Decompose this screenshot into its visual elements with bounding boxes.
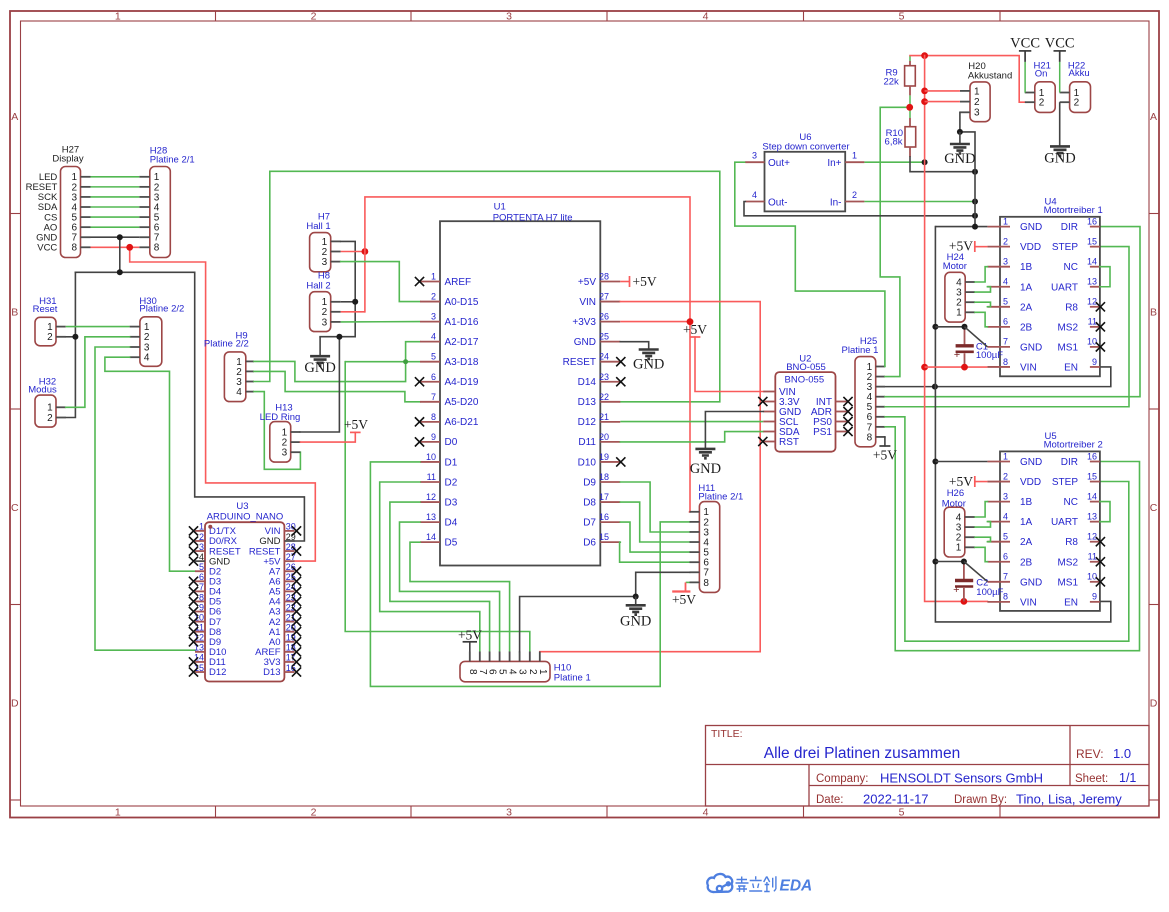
power flag +5V H13: [350, 431, 361, 433]
U3 pin 19 A0: [284, 641, 294, 643]
wire H10.3 to GND junction: [520, 597, 636, 652]
svg-text:12: 12: [426, 492, 436, 502]
U2 pin ADR: [836, 411, 848, 413]
svg-text:5: 5: [431, 352, 436, 362]
svg-text:+5V: +5V: [683, 322, 707, 337]
wire H24.3 to U4.1A: [975, 287, 991, 292]
U4 pin 5 2A: [987, 306, 1010, 308]
svg-text:4: 4: [752, 190, 757, 200]
svg-text:9: 9: [199, 602, 204, 612]
svg-text:Platine 2/1: Platine 2/1: [150, 155, 195, 166]
svg-text:D: D: [1150, 698, 1158, 710]
svg-text:4: 4: [703, 807, 709, 819]
svg-text:100µF: 100µF: [976, 350, 1003, 361]
IC U3 ARDUINO_NANO: [205, 522, 284, 681]
svg-text:1: 1: [431, 272, 436, 282]
wire U4 NC to UART: [1100, 267, 1110, 287]
svg-text:Platine 2/2: Platine 2/2: [204, 339, 249, 350]
wire C2 top junction: [935, 561, 964, 563]
svg-text:Hall 1: Hall 1: [306, 221, 330, 232]
U1 pin 19 D10: [600, 461, 620, 463]
svg-text:3: 3: [752, 151, 757, 161]
svg-text:2: 2: [431, 292, 436, 302]
svg-text:D10: D10: [578, 457, 597, 468]
svg-text:U1: U1: [494, 202, 506, 213]
svg-text:GND: GND: [574, 337, 596, 348]
wire U1.13 D4 to H10.5: [400, 522, 500, 651]
svg-text:2022-11-17: 2022-11-17: [863, 792, 929, 807]
svg-text:7: 7: [477, 669, 488, 675]
junction dot H7.2: [362, 248, 369, 255]
wire U6.In- to GND net: [864, 201, 975, 203]
svg-text:30: 30: [286, 522, 296, 532]
svg-text:+5V: +5V: [578, 277, 596, 288]
svg-text:C: C: [1150, 502, 1158, 514]
U1 pin 26 +3V3: [600, 321, 620, 323]
U2 pin 3.3V: [763, 401, 775, 403]
U3 pin 24 A5: [284, 590, 294, 592]
svg-text:4: 4: [1003, 277, 1008, 287]
U2 pin INT: [836, 401, 848, 403]
svg-text:STEP: STEP: [1052, 242, 1078, 253]
connector H20 Akkustand: [970, 82, 990, 122]
svg-text:ARDUINO_NANO: ARDUINO_NANO: [207, 512, 284, 523]
svg-text:GND: GND: [1020, 457, 1042, 468]
U6 pin 2 In-: [845, 201, 864, 203]
svg-text:3: 3: [322, 317, 328, 328]
wire U1.16 D7 to H11.5: [620, 522, 689, 552]
junction dot +3V3: [687, 318, 694, 325]
connector H10 Platine 1: [460, 661, 550, 681]
U1 pin 22 D13: [600, 401, 620, 403]
svg-text:STEP: STEP: [1052, 477, 1078, 488]
svg-text:19: 19: [599, 452, 609, 462]
svg-text:REV:: REV:: [1076, 747, 1104, 761]
svg-text:R8: R8: [1065, 302, 1078, 313]
U6 pin 4 Out-: [745, 201, 764, 203]
U3 pin 9 D6: [195, 611, 205, 613]
U4 pin 11 MS2: [1090, 326, 1100, 328]
svg-text:GND: GND: [620, 613, 651, 629]
wire VCC top to H21.2: [910, 56, 1025, 103]
svg-text:2B: 2B: [1020, 557, 1033, 568]
svg-text:D13: D13: [578, 397, 597, 408]
EasyEDA logo: [707, 874, 732, 892]
svg-text:B: B: [1150, 307, 1157, 319]
U3 pin 23 A4: [284, 600, 294, 602]
power flag VCC H21: [1019, 50, 1031, 52]
svg-text:1: 1: [115, 11, 121, 23]
svg-text:8: 8: [199, 592, 204, 602]
wire H30.2-H32.1: [66, 337, 130, 408]
connector H28 Platine 2/1: [150, 167, 171, 258]
wire U5 NC to UART: [1100, 502, 1110, 522]
U4 pin 2 VDD: [987, 246, 1010, 248]
svg-text:5: 5: [497, 669, 508, 675]
svg-text:D11: D11: [578, 437, 596, 448]
svg-text:3: 3: [282, 448, 288, 459]
wire U1.11 D2 to H10.7: [380, 482, 480, 652]
svg-text:NC: NC: [1064, 497, 1078, 508]
svg-text:RESET: RESET: [563, 357, 596, 368]
svg-text:GND: GND: [1044, 150, 1075, 166]
wire H30.3-U3.D10: [95, 347, 195, 650]
wire H8.3 to U1.3: [341, 321, 420, 323]
wire GND net to U3.29: [195, 272, 305, 541]
connector H7 Hall 1: [310, 233, 331, 272]
U2 pin VIN: [763, 391, 775, 393]
U1 pin 9 D0: [420, 441, 440, 443]
svg-text:3: 3: [517, 669, 528, 675]
svg-text:Alle drei Platinen zusammen: Alle drei Platinen zusammen: [764, 745, 960, 762]
wire H9.4 to H13.3: [254, 392, 300, 470]
svg-text:9: 9: [1092, 592, 1097, 602]
junction dot VCC H27.8: [126, 244, 133, 251]
svg-text:8: 8: [154, 243, 160, 254]
svg-text:D1: D1: [445, 457, 458, 468]
U4 pin 6 2B: [987, 326, 1010, 328]
svg-text:10: 10: [1087, 337, 1097, 347]
svg-text:A4-D19: A4-D19: [445, 377, 479, 388]
svg-text:Modus: Modus: [28, 385, 57, 396]
wire H31.1-H30.1: [66, 326, 130, 328]
junction dot divider mid: [906, 104, 913, 111]
svg-text:D4: D4: [445, 517, 458, 528]
wire H24.1 to U4.2B: [975, 312, 987, 327]
svg-text:12: 12: [1087, 532, 1097, 542]
U1 pin 8 A6-D21: [420, 421, 440, 423]
U3 pin 2 D0/RX: [195, 540, 205, 542]
U4 pin 8 VIN: [987, 366, 1010, 368]
svg-text:1A: 1A: [1020, 282, 1033, 293]
svg-text:7: 7: [199, 582, 204, 592]
U5 pin 5 2A: [987, 541, 1010, 543]
svg-text:5: 5: [199, 562, 204, 572]
svg-text:8: 8: [703, 578, 709, 589]
svg-text:Platine 1: Platine 1: [554, 673, 591, 684]
wire H26.4 to U5.1B: [975, 502, 987, 517]
power flag VCC H22: [1054, 50, 1066, 52]
wire +5V flag to U2.VIN: [695, 337, 763, 392]
svg-text:8: 8: [867, 432, 873, 443]
U4 pin 10 MS1: [1090, 346, 1100, 348]
svg-text:15: 15: [1087, 471, 1097, 481]
wire H20.1 to VCC: [925, 90, 960, 92]
svg-text:10: 10: [426, 452, 436, 462]
svg-text:28: 28: [286, 542, 296, 552]
svg-text:2B: 2B: [1020, 322, 1033, 333]
wire GND vertical right: [935, 227, 1110, 622]
U3 pin 25 A6: [284, 580, 294, 582]
svg-text:5: 5: [899, 807, 905, 819]
wire U6.In+ to VCC net: [864, 161, 924, 163]
svg-text:GND: GND: [1020, 577, 1042, 588]
svg-text:HENSOLDT Sensors GmbH: HENSOLDT Sensors GmbH: [880, 771, 1043, 786]
svg-text:4: 4: [236, 387, 242, 398]
svg-text:Sheet:: Sheet:: [1075, 773, 1108, 785]
wire H13.2 to +5V flag: [300, 432, 355, 442]
U5 pin 3 1B: [987, 501, 1010, 503]
svg-text:MS1: MS1: [1057, 577, 1078, 588]
svg-text:RST: RST: [779, 437, 799, 448]
U1 pin 7 A5-D20: [420, 401, 440, 403]
svg-text:1: 1: [199, 522, 204, 532]
svg-text:3: 3: [506, 807, 512, 819]
svg-text:+5V: +5V: [873, 447, 897, 462]
svg-text:1B: 1B: [1020, 262, 1033, 273]
wire H25.4 to U4.DIR: [885, 227, 1140, 397]
svg-text:GND: GND: [1020, 342, 1042, 353]
svg-text:15: 15: [1087, 236, 1097, 246]
svg-text:+5V: +5V: [458, 627, 482, 642]
wire U1.25 GND to ground: [620, 342, 648, 349]
svg-text:GND: GND: [633, 357, 664, 373]
svg-text:2: 2: [852, 190, 857, 200]
svg-text:Hall 2: Hall 2: [306, 281, 330, 292]
svg-text:VIN: VIN: [1020, 597, 1037, 608]
svg-text:3: 3: [322, 257, 328, 268]
wire U6.Out- loop to GND net: [744, 202, 975, 216]
connector H11 Platine 2/1: [699, 502, 719, 593]
U5 pin 13 UART: [1090, 521, 1100, 523]
svg-text:9: 9: [431, 432, 436, 442]
svg-text:BNO-055: BNO-055: [785, 375, 825, 386]
svg-text:14: 14: [426, 532, 436, 542]
svg-text:7: 7: [1003, 337, 1008, 347]
U3 pin 20 A1: [284, 631, 294, 633]
svg-text:Motortreiber 2: Motortreiber 2: [1044, 439, 1103, 450]
wire H13.1 to GND net: [300, 337, 339, 432]
connector H8 Hall 2: [310, 292, 331, 332]
U5 pin 15 STEP: [1090, 481, 1100, 483]
connector H31 Reset: [35, 317, 56, 346]
wire H24.4 to U4.1B: [975, 267, 987, 282]
svg-text:Company:: Company:: [816, 773, 868, 785]
svg-text:VCC: VCC: [1010, 35, 1040, 51]
U4 pin 7 GND: [987, 346, 1010, 348]
svg-text:2: 2: [47, 413, 53, 424]
U5 pin 4 1A: [987, 521, 1010, 523]
U5 pin 7 GND: [987, 581, 1010, 583]
U1 pin 27 VIN: [600, 301, 620, 303]
power flag +5V H11.8: [672, 590, 690, 592]
U1 pin 4 A2-D17: [420, 341, 440, 343]
svg-text:20: 20: [599, 432, 609, 442]
svg-text:UART: UART: [1051, 517, 1078, 528]
svg-text:D12: D12: [209, 667, 226, 678]
svg-text:10: 10: [1087, 572, 1097, 582]
svg-text:11: 11: [1088, 552, 1097, 562]
U3 pin 10 D7: [195, 621, 205, 623]
svg-text:In-: In-: [830, 198, 842, 209]
junction dot net A2/A3: [403, 359, 408, 364]
junction dots GND vertical: [932, 324, 938, 330]
svg-text:Step down converter: Step down converter: [762, 141, 849, 152]
svg-text:EN: EN: [1064, 362, 1078, 373]
svg-text:3: 3: [431, 312, 436, 322]
U5 no-connect X marks: [1096, 537, 1105, 546]
wire H25.3 GND: [885, 386, 935, 388]
U4 pin 9 EN: [1090, 366, 1100, 368]
U3 pin 11 D8: [195, 631, 205, 633]
IC U4 Motortreiber 1: [1000, 217, 1100, 376]
svg-text:1: 1: [956, 308, 962, 319]
connector H9 Platine 2/2: [224, 352, 245, 402]
U1 pin 25 GND: [600, 341, 620, 343]
svg-text:2: 2: [527, 669, 538, 675]
power flag +5V U1.28: [620, 281, 629, 283]
wire VCC vertical to U5.VIN: [925, 56, 988, 602]
U2 pin SDA: [763, 431, 775, 433]
wire H27.4-H28.4: [91, 206, 140, 208]
svg-text:GND: GND: [944, 151, 975, 167]
svg-text:VCC: VCC: [1045, 35, 1075, 51]
U3 pin 8 D5: [195, 600, 205, 602]
wire C1 diagonal to U4.7 GND: [965, 327, 988, 347]
svg-text:3: 3: [1003, 491, 1008, 501]
U1 pin 10 D1: [420, 461, 440, 463]
wire H27.2-H28.2: [91, 186, 140, 188]
U3 pin 28 RESET: [284, 550, 294, 552]
svg-text:VDD: VDD: [1020, 242, 1041, 253]
svg-text:6: 6: [431, 372, 436, 382]
connector H32 Modus: [35, 395, 56, 427]
junction dots hall GND: [352, 299, 358, 305]
svg-text:6: 6: [199, 572, 204, 582]
svg-text:Platine 2/2: Platine 2/2: [139, 304, 184, 315]
svg-text:A0-D15: A0-D15: [445, 297, 479, 308]
connector H21 On: [1035, 82, 1055, 113]
svg-text:Akkustand: Akkustand: [968, 71, 1012, 82]
svg-text:A3-D18: A3-D18: [445, 357, 479, 368]
ground symbol H22: [1050, 146, 1070, 155]
U1 pin 21 D12: [600, 421, 620, 423]
svg-text:8: 8: [1003, 592, 1008, 602]
U3 no-connect X marks left: [189, 526, 198, 535]
U3 pin 26 A7: [284, 570, 294, 572]
U1 pin 28 +5V: [600, 281, 620, 283]
svg-text:A5-D20: A5-D20: [445, 397, 479, 408]
svg-text:Display: Display: [52, 154, 83, 165]
wire H8.2 to +5V vertical: [341, 311, 365, 313]
wire +5V ring around U1: [365, 197, 690, 512]
IC U2 BNO-055: [775, 372, 835, 452]
svg-text:4: 4: [431, 332, 436, 342]
svg-text:BNO-055: BNO-055: [786, 362, 826, 373]
wire U4.EN return to GND: [935, 367, 1111, 387]
svg-text:22: 22: [599, 392, 609, 402]
svg-text:2: 2: [311, 11, 317, 23]
U3 pin 15 D12: [195, 671, 205, 673]
svg-text:23: 23: [599, 372, 609, 382]
U6 pin 3 Out+: [745, 161, 764, 163]
svg-text:+5V: +5V: [672, 592, 696, 607]
U3 pin 5 D2: [195, 570, 205, 572]
svg-text:EDA: EDA: [780, 878, 813, 895]
wire H11.7 to ground: [636, 572, 690, 596]
svg-text:7: 7: [1003, 572, 1008, 582]
U1 pin 3 A1-D16: [420, 321, 440, 323]
power flag +5V H10.8: [469, 642, 471, 651]
wire H25.6 to U5.STEP: [885, 417, 1129, 641]
power flag +5V mid: [690, 336, 701, 338]
svg-text:5: 5: [1003, 297, 1008, 307]
svg-text:28: 28: [599, 272, 609, 282]
svg-text:Tino, Lisa, Jeremy: Tino, Lisa, Jeremy: [1016, 792, 1122, 807]
wire C2 diagonal to U5.7 GND: [964, 562, 988, 582]
U5 pin 11 MS2: [1090, 561, 1100, 563]
svg-text:R8: R8: [1065, 537, 1078, 548]
wire GND H27.7-H28.7: [91, 236, 140, 238]
U3 pin 14 D11: [195, 661, 205, 663]
U3 pin 13 D10: [195, 651, 205, 653]
wire U1.26 +3V3 to +5V net: [620, 321, 690, 323]
svg-text:In+: In+: [827, 158, 841, 169]
svg-text:2: 2: [199, 532, 204, 542]
svg-text:2A: 2A: [1020, 302, 1033, 313]
U3 pin 12 D9: [195, 641, 205, 643]
svg-text:Platine 1: Platine 1: [842, 345, 879, 356]
svg-text:1: 1: [1003, 451, 1008, 461]
U3 pin 6 D3: [195, 580, 205, 582]
U3 pin 21 A2: [284, 621, 294, 623]
junction dot H20 GND: [957, 129, 963, 135]
wire H27.1-H28.1: [91, 176, 140, 178]
svg-text:A1-D16: A1-D16: [445, 317, 479, 328]
svg-text:+5V: +5V: [949, 474, 973, 489]
U3 pin 29 GND: [284, 540, 294, 542]
svg-text:VIN: VIN: [1020, 362, 1037, 373]
svg-text:Motortreiber 1: Motortreiber 1: [1044, 205, 1103, 216]
svg-text:D6: D6: [583, 537, 596, 548]
svg-text:PORTENTA H7 lite: PORTENTA H7 lite: [493, 213, 573, 224]
svg-text:PS1: PS1: [813, 427, 832, 438]
U2 no-connect X marks: [758, 397, 767, 406]
IC U5 Motortreiber 2: [1000, 451, 1100, 611]
svg-text:11: 11: [1088, 317, 1097, 327]
U3 no-connect X marks right: [292, 526, 301, 535]
svg-text:15: 15: [599, 532, 609, 542]
U2 pin RST: [763, 441, 775, 443]
U3 pin1 marker dot: [208, 525, 212, 529]
svg-text:GND: GND: [1020, 222, 1042, 233]
U4 pin 1 GND: [987, 226, 1010, 228]
svg-text:6: 6: [1003, 317, 1008, 327]
U4 pin 14 NC: [1090, 266, 1100, 268]
connector H13 LED Ring: [270, 422, 291, 463]
svg-text:A6-D21: A6-D21: [445, 417, 479, 428]
U1 pin 13 D4: [420, 521, 440, 523]
svg-text:U3: U3: [236, 501, 248, 512]
svg-text:6,8k: 6,8k: [885, 137, 903, 148]
wire C1 top junction: [935, 326, 964, 328]
wire H9.2 to U1.7: [254, 371, 420, 401]
svg-text:4: 4: [199, 552, 204, 562]
svg-text:1A: 1A: [1020, 517, 1033, 528]
svg-text:2: 2: [1074, 98, 1080, 109]
U4 pin 4 1A: [987, 286, 1010, 288]
svg-text:1: 1: [852, 151, 857, 161]
svg-text:Platine 2/1: Platine 2/1: [698, 491, 743, 502]
svg-text:18: 18: [599, 472, 609, 482]
U5 pin 8 VIN: [987, 601, 1010, 603]
wire U4.1 GND: [935, 226, 987, 228]
wire H27.6-H28.6: [91, 226, 140, 228]
svg-text:UART: UART: [1051, 282, 1078, 293]
svg-text:MS1: MS1: [1057, 342, 1078, 353]
U1 pin 15 D6: [600, 541, 620, 543]
wire VCC H27.8-H28.8: [91, 246, 140, 248]
